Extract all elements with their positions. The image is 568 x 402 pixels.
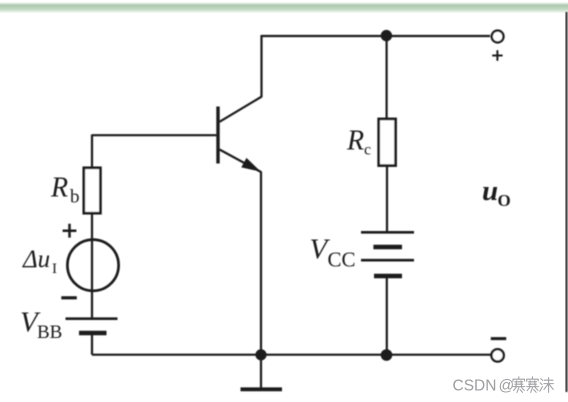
wire: Rc top [386, 36, 388, 120]
battery VCC short plate 1 [373, 245, 402, 249]
green header bar [0, 2, 568, 14]
svg-text:Δu: Δu [22, 246, 50, 273]
ground wire stem [260, 355, 262, 388]
svg-text:R: R [50, 173, 68, 204]
battery VCC short plate 2 [374, 274, 402, 278]
svg-text:I: I [52, 261, 57, 277]
battery VBB long plate [66, 317, 118, 320]
node: top junction dot [381, 30, 392, 41]
wire: emitter diagonal [220, 150, 262, 173]
wire: collector vertical [260, 35, 262, 97]
wire: Rb to source through circle [91, 213, 93, 319]
watermark CJK glyph han2 [527, 377, 539, 393]
wire: VBB to bottom rail [91, 333, 93, 355]
battery VCC long plate 1 [361, 231, 414, 234]
wire: bottom rail [92, 354, 491, 356]
wire: collector diagonal [220, 97, 262, 122]
svg-text:@: @ [499, 377, 515, 394]
terminal: output + circle [492, 31, 504, 43]
transistor Q1 emitter arrow [242, 159, 259, 171]
transistor Q1 base bar [216, 107, 219, 164]
svg-text:BB: BB [37, 322, 62, 343]
svg-text:b: b [70, 187, 80, 208]
battery VCC long plate 2 [361, 259, 414, 262]
wire: base wire [92, 134, 216, 136]
watermark CJK glyph han1 [513, 377, 525, 393]
node: VCC bottom junction dot [381, 349, 393, 361]
right window border line [565, 12, 567, 392]
minus sign at output [491, 337, 506, 340]
wire: VCC to bottom rail [386, 276, 388, 355]
svg-text:O: O [498, 191, 511, 210]
wire: top collector rail [262, 35, 491, 37]
plus sign at output [492, 50, 502, 60]
svg-text:CC: CC [328, 248, 356, 272]
source circle du_I [67, 240, 118, 291]
wire: Rc bottom to VCC [386, 166, 388, 233]
svg-text:c: c [364, 142, 371, 159]
resistor Rb [84, 168, 101, 213]
ground bar [241, 387, 283, 391]
terminal: output - circle [491, 349, 503, 361]
wire: emitter vertical [260, 172, 262, 356]
battery VBB short plate [79, 331, 107, 336]
svg-text:R: R [346, 126, 364, 157]
node: emitter bottom junction dot [255, 349, 266, 360]
svg-text:u: u [482, 175, 498, 207]
wire: left branch upper [91, 135, 93, 169]
minus sign at source [61, 296, 77, 299]
resistor Rc [379, 119, 396, 166]
watermark CSDN [453, 377, 515, 394]
plus sign at source [63, 224, 77, 238]
watermark CJK glyph mo [540, 378, 554, 393]
svg-text:CSDN: CSDN [453, 377, 497, 394]
